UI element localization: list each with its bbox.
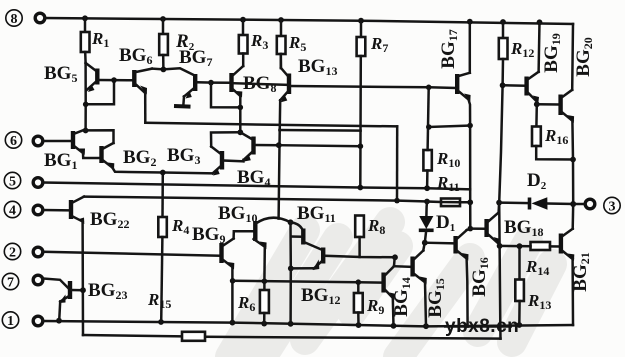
node R10 top tap dot xyxy=(426,85,432,91)
wire BG13 to BG17 base xyxy=(291,86,455,88)
node BG9 emitter tap for 281 wire xyxy=(230,278,236,284)
svg-text:7: 7 xyxy=(7,276,14,291)
resistor R1 xyxy=(81,18,110,63)
node R16 bottom junction xyxy=(570,157,576,163)
resistor R2 xyxy=(159,19,194,69)
transistor BG21 xyxy=(561,229,592,292)
resistor R15 horizontal xyxy=(147,290,205,341)
node pin5 wire dots xyxy=(357,185,363,191)
pin 2 circled number xyxy=(4,243,20,260)
transistor BG7 xyxy=(179,47,212,99)
node R13 top dot xyxy=(517,243,523,249)
resistor R11 horizontal xyxy=(436,173,460,206)
wire BG6 emitter leg down to long bus xyxy=(144,93,147,123)
resistor R16 xyxy=(532,104,573,159)
transistor BG12 xyxy=(301,248,360,308)
wire emitter bus BG2-BG3 xyxy=(112,168,212,174)
resistor R10 xyxy=(423,149,460,188)
watermark text xyxy=(444,316,519,337)
transistor BG1 xyxy=(44,130,85,173)
wire BG14 emitter to rail xyxy=(392,298,395,326)
resistor R12 xyxy=(499,22,535,60)
wire BG17 collector to rail xyxy=(469,22,472,73)
wire BG9 collector to BG10 base xyxy=(234,231,253,238)
wire long bus wire-A xyxy=(145,123,397,127)
wire BG16 collector joins x470 xyxy=(467,229,471,230)
node y281 wire dots xyxy=(262,278,268,284)
wire twin bias link x279 to R7 leg xyxy=(279,129,360,132)
watermark background tint xyxy=(230,222,552,357)
node R7 leg junction xyxy=(358,143,364,149)
wire BG18 base xyxy=(470,227,484,230)
wire BG12 emitter strap to x291 xyxy=(291,267,314,270)
wire R10 upper leg xyxy=(428,87,429,150)
wire vertical x291 to rail xyxy=(289,222,292,323)
ground-style bar BG7 emitter termination xyxy=(174,104,191,109)
node A top-rail junction dots xyxy=(82,15,88,21)
node D1 bottom junction xyxy=(422,240,428,246)
wire R10 link to x470 xyxy=(429,126,470,128)
wire BG15 base link xyxy=(394,265,411,268)
transistor BG2 xyxy=(102,143,157,170)
resistor R4 xyxy=(158,173,189,323)
pin 8 terminal xyxy=(35,13,45,23)
resistor R6 xyxy=(237,281,269,323)
svg-text:1: 1 xyxy=(7,314,14,329)
transistor BG15 xyxy=(413,251,447,318)
resistor R3 xyxy=(239,20,269,66)
node x470 BG18 base junction xyxy=(468,226,474,232)
node R8 bottom junction xyxy=(392,254,398,260)
node hump dot xyxy=(288,219,294,225)
wire BG9 emitter leg to rail xyxy=(231,267,234,323)
svg-text:2: 2 xyxy=(9,246,16,261)
wire BG1 emitter to BG2 base xyxy=(83,153,100,158)
transistor BG9 xyxy=(192,224,234,270)
wire BG10 emitter leg xyxy=(263,247,266,281)
transistor BG17 xyxy=(438,29,471,101)
wire base bus y281 xyxy=(233,281,382,283)
transistor BG11 xyxy=(291,203,336,250)
wire BG19 collector to rail xyxy=(537,22,540,72)
wire BG2 collector loop to node x85 xyxy=(86,130,114,143)
svg-text:6: 6 xyxy=(10,134,17,149)
transistor BG13 xyxy=(280,56,337,102)
wire x573 down to BG21 collector xyxy=(571,204,574,229)
transistor BG20 xyxy=(561,37,595,123)
pin 3 terminal xyxy=(585,199,595,209)
node BG18 emitter dot xyxy=(497,243,503,249)
node R11 left junction xyxy=(424,199,430,205)
wire BG15 emitter leg to rail xyxy=(425,282,426,326)
resistor R13 xyxy=(515,246,551,325)
transistor BG3 xyxy=(167,145,243,176)
resistor R5 xyxy=(277,20,307,68)
node BG23 collector dot xyxy=(80,287,86,293)
wire hump to BG11 collector xyxy=(291,222,303,229)
resistor R9 xyxy=(354,282,384,325)
transistor BG18 xyxy=(487,213,544,246)
wire BG7 emitter to bar xyxy=(182,97,185,105)
wire BG8 bar to BG13 base xyxy=(233,83,287,85)
wire BG17 emitter leg x470 xyxy=(469,100,471,229)
pin 7 terminal xyxy=(33,275,43,285)
wire BG20 collector to rail corner xyxy=(571,24,574,90)
wire BG8 emitter leg xyxy=(239,96,242,132)
wire BG21 emitter to rail end xyxy=(571,259,574,325)
wire BG14 collector to node xyxy=(393,257,396,266)
wire BG16 emitter leg to rail xyxy=(467,259,468,327)
node BG19 emitter junction xyxy=(534,101,540,107)
node R2 bottom dot xyxy=(161,67,167,73)
wire top supply rail from pin 8 xyxy=(45,18,573,24)
pin 4 terminal xyxy=(33,205,43,215)
transistor BG5 xyxy=(44,63,132,92)
transistor BG14 xyxy=(384,266,413,317)
wire output to pin3 terminal xyxy=(573,203,585,206)
node x85 dots xyxy=(83,102,89,108)
wire vertical x501 R12 leg full xyxy=(499,59,503,339)
pin 1 circled number xyxy=(2,312,18,329)
transistor BG8 xyxy=(232,66,277,98)
wire BG19 base xyxy=(503,84,525,87)
wire BG15 collector to D1 node xyxy=(423,243,424,251)
node output junction xyxy=(570,201,576,207)
wire R1/BG5 vertical x85 xyxy=(84,63,87,131)
wire pin 5 compensation line xyxy=(43,183,470,190)
wire BG13 collector to R5 xyxy=(280,54,283,68)
wire BG23 emitter to pin1 rail xyxy=(59,302,60,321)
node R12 leg BG19 base tap xyxy=(500,82,506,88)
node BG5 base dot xyxy=(111,77,117,83)
node x291 strap dot xyxy=(288,266,294,272)
node BG7 base dot xyxy=(208,80,214,86)
svg-text:3: 3 xyxy=(609,200,616,215)
resistor R14 horizontal xyxy=(525,242,550,278)
wire BG13 emitter vertical x279 xyxy=(279,100,281,218)
node x398 junction xyxy=(394,198,400,204)
pin 6 circled number xyxy=(5,132,21,149)
transistor BG16 xyxy=(425,230,491,297)
wire BG6/BG7 collector junction from R2 xyxy=(152,68,194,75)
wire BG7 base strap loop to BG8 emitter xyxy=(211,83,240,108)
node dots x429/x470 xyxy=(426,124,432,130)
diode D2 xyxy=(527,170,573,210)
wire pin 2 line to BG9 base xyxy=(43,252,220,256)
wire R14 node to BG21 base xyxy=(500,245,531,248)
pin 2 terminal xyxy=(33,247,43,257)
transistor BG22 xyxy=(43,197,129,231)
wire output line y203 xyxy=(499,201,528,204)
node BG8 emitter dots xyxy=(238,105,244,111)
wire BG10 collector hump over x279 xyxy=(256,218,291,224)
pin 5 circled number xyxy=(4,172,20,189)
wire lower rail R15 row xyxy=(83,335,182,336)
wire BG5 base strap loop xyxy=(86,80,114,104)
wire BG20 emitter leg down xyxy=(571,121,574,204)
pin 4 circled number xyxy=(4,201,20,218)
wire BG20 base xyxy=(537,103,559,106)
transistor BG23 xyxy=(43,279,127,304)
wire ground rail (pin 1) xyxy=(43,321,573,326)
transistor BG10 xyxy=(218,203,267,249)
pin 3 circled number xyxy=(604,197,620,214)
resistor R8 xyxy=(355,216,395,258)
wire BG4 emitter down to BG3 base wire xyxy=(242,160,245,162)
node R11 right junction xyxy=(467,199,473,205)
node ground-rail junction dots xyxy=(56,318,62,324)
wire BG22 collector long line to R11 node xyxy=(84,197,427,202)
resistor R7 xyxy=(357,21,389,188)
wire vertical x398 from bus to collector line xyxy=(396,126,399,200)
pin 6 terminal xyxy=(33,136,43,146)
transistor BG4 xyxy=(237,133,279,189)
wire BG4 base to R7 leg xyxy=(279,145,361,146)
svg-text:5: 5 xyxy=(9,175,16,190)
wire BG22 emitter leg down to lower rail xyxy=(81,222,84,336)
transistor BG6 xyxy=(119,45,152,95)
pin 5 terminal xyxy=(33,178,43,188)
svg-text:8: 8 xyxy=(11,12,18,27)
node BG4 base junction xyxy=(276,142,282,148)
wire lower rail right of R15 xyxy=(205,337,501,339)
pin 7 circled number xyxy=(2,273,18,290)
wire R11 to x470 xyxy=(427,200,470,203)
wire BG19 emitter to junction xyxy=(536,102,539,105)
diode D1 xyxy=(419,202,455,243)
node BG18 collector dot xyxy=(496,200,502,206)
pin 8 circled number xyxy=(6,10,22,27)
node emitter bus R4 tap dot xyxy=(160,170,166,176)
wire BG3 collector loop to node 240 xyxy=(211,132,240,146)
wire BG18 collector to output node xyxy=(497,203,500,213)
transistor BG19 xyxy=(527,33,563,103)
wire BG7 base bus to BG8 xyxy=(211,81,229,84)
svg-text:4: 4 xyxy=(9,204,16,219)
pin 1 terminal xyxy=(33,316,43,326)
